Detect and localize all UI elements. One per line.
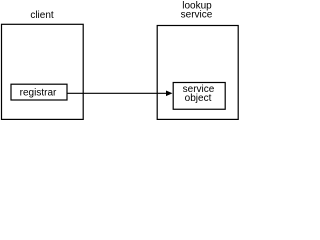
svg-text:client: client: [30, 10, 54, 21]
svg-text:registrar: registrar: [20, 87, 57, 98]
svg-text:object: object: [185, 93, 212, 104]
svg-text:service: service: [181, 9, 213, 20]
